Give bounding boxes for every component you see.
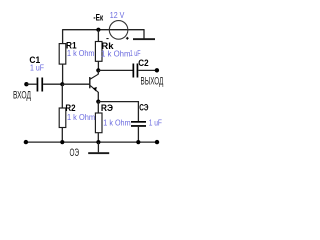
ground (bottom) [88, 152, 109, 154]
svg-text:ОЭ: ОЭ [70, 147, 80, 159]
capacitor Cэ [131, 121, 146, 127]
output terminal node dot [155, 68, 159, 72]
node junction dot Rk top [96, 28, 100, 32]
svg-text:1 uF: 1 uF [30, 63, 44, 72]
svg-text:1 k Ohm: 1 k Ohm [67, 49, 95, 58]
transistor Q1 [90, 70, 99, 101]
input terminal node dot [24, 82, 28, 86]
node collector junction dot [96, 68, 100, 72]
resistor Rk top lead wire [97, 30, 99, 42]
wire collector to C2 [98, 69, 132, 71]
resistor Rэ [95, 113, 102, 133]
capacitor Cэ bottom lead wire [137, 127, 139, 142]
wire emitter to Cэ [98, 102, 138, 121]
svg-text:ВЫХОД: ВЫХОД [141, 75, 164, 87]
voltage source plus polarity mark [126, 37, 129, 40]
wire bottom common rail [26, 141, 157, 143]
svg-text:-Ек: -Ек [93, 11, 103, 22]
svg-text:1 k Ohm: 1 k Ohm [67, 113, 95, 122]
svg-text:C2: C2 [138, 57, 148, 68]
resistor Rэ top lead wire [97, 102, 99, 113]
svg-text:R2: R2 [65, 102, 75, 113]
resistor R1 bottom lead wire [62, 64, 64, 84]
node emitter junction dot [96, 100, 100, 104]
wire C1 to base junction [43, 83, 62, 85]
svg-text:RЭ: RЭ [101, 102, 113, 113]
svg-text:СЭ: СЭ [139, 102, 148, 113]
bottom right terminal node dot [155, 140, 159, 144]
resistor Rэ bottom lead wire [97, 133, 99, 142]
resistor R1 top lead wire [62, 29, 64, 43]
node R2 bottom junction dot [60, 140, 64, 144]
resistor R1 [59, 44, 66, 65]
voltage source V1 circle [109, 21, 128, 40]
svg-text:1 uF: 1 uF [130, 49, 141, 58]
svg-text:1 uF: 1 uF [149, 119, 162, 128]
resistor R2 [59, 108, 66, 128]
svg-text:ВХОД: ВХОД [13, 89, 31, 101]
wire base junction to transistor base [62, 83, 90, 85]
resistor R2 bottom lead wire [61, 128, 63, 143]
capacitor C2 [133, 64, 139, 78]
node base junction dot [60, 82, 64, 86]
svg-text:1 k Ohm: 1 k Ohm [103, 118, 131, 127]
wire ground stub bottom [97, 142, 99, 152]
resistor Rk bottom lead wire [97, 61, 99, 70]
svg-text:12 V: 12 V [110, 11, 125, 20]
wire from rail to right ground [143, 29, 145, 38]
capacitor C1 [37, 78, 44, 92]
node ground junction dot [96, 140, 100, 144]
ground (top right) [133, 38, 155, 40]
bottom left terminal node dot [24, 140, 28, 144]
svg-text:1 k Ohm: 1 k Ohm [101, 49, 131, 58]
resistor R2 top lead wire [61, 84, 63, 108]
resistor Rk [95, 42, 102, 62]
wire top supply rail [63, 29, 144, 31]
wire input terminal to C1 [26, 83, 36, 85]
wire C2 to output terminal [138, 69, 157, 71]
voltage source minus polarity mark [106, 38, 108, 40]
node Cэ bottom junction dot [136, 140, 140, 144]
